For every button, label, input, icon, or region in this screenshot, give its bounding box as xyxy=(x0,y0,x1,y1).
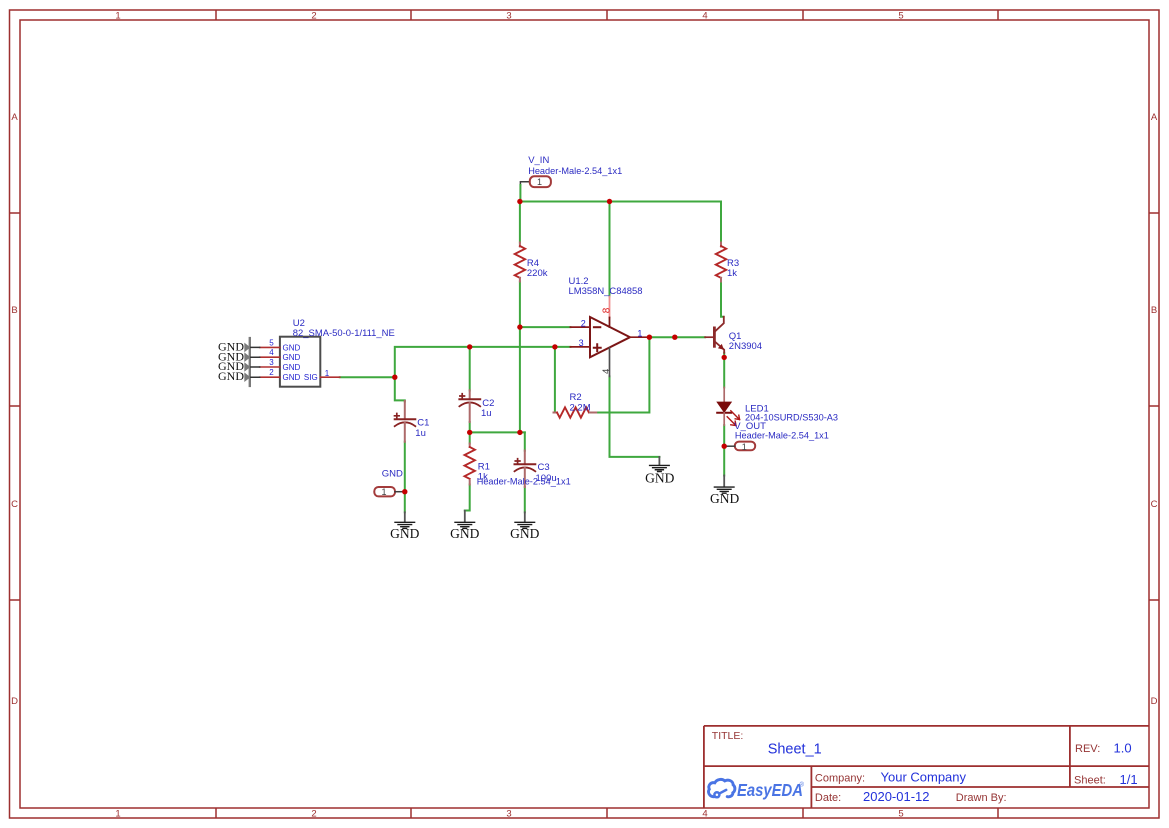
header flag GND near C1 xyxy=(374,487,405,496)
ground symbol below R1 xyxy=(455,511,475,529)
capacitor C1 xyxy=(395,401,416,442)
svg-text:2: 2 xyxy=(581,318,586,328)
svg-text:220k: 220k xyxy=(527,268,548,279)
capacitor C3 xyxy=(515,451,536,488)
svg-text:1: 1 xyxy=(325,369,330,378)
capacitor C2 xyxy=(459,390,480,422)
svg-text:4: 4 xyxy=(702,809,707,820)
svg-text:GND: GND xyxy=(450,526,479,541)
wire R1 top lead xyxy=(469,432,471,443)
svg-text:GND: GND xyxy=(510,526,539,541)
svg-text:2020-01-12: 2020-01-12 xyxy=(863,789,930,804)
wire C2 top from pin3 rail xyxy=(469,347,471,391)
wire C3 bottom to GND xyxy=(524,487,526,512)
svg-text:4: 4 xyxy=(601,369,612,374)
svg-text:1u: 1u xyxy=(481,408,492,419)
svg-text:1k: 1k xyxy=(727,268,737,279)
wire pin2 stub horizontal xyxy=(520,326,571,328)
svg-text:SIG: SIG xyxy=(304,373,318,382)
border row letters left xyxy=(11,112,18,707)
svg-text:A: A xyxy=(1151,112,1158,123)
svg-text:REV:: REV: xyxy=(1075,743,1100,755)
junction dots xyxy=(392,199,727,495)
svg-text:5: 5 xyxy=(898,809,903,820)
svg-text:3: 3 xyxy=(579,338,584,348)
GND flag texts at U2 xyxy=(218,340,244,383)
EasyEDA logo xyxy=(709,779,805,800)
svg-text:82_SMA-50-0-1/111_NE: 82_SMA-50-0-1/111_NE xyxy=(293,328,395,339)
wire R2 left lead up to pin3 rail xyxy=(554,347,556,413)
svg-text:8: 8 xyxy=(602,307,613,313)
wire opamp output to Q1 base xyxy=(649,336,705,338)
wire SIG node up and right to pin3 xyxy=(395,347,571,377)
wire C3 top from mid row xyxy=(524,432,526,450)
LED LED1 xyxy=(717,387,739,425)
svg-text:GND: GND xyxy=(710,491,739,506)
svg-text:GND: GND xyxy=(283,373,301,382)
svg-text:2: 2 xyxy=(269,368,274,377)
wire opamp pin4 down and right to GND xyxy=(610,376,660,457)
op-amp U1.2 xyxy=(570,296,649,376)
svg-text:B: B xyxy=(11,305,17,316)
svg-text:GND: GND xyxy=(390,526,419,541)
svg-text:GND: GND xyxy=(645,471,674,486)
svg-text:1: 1 xyxy=(637,328,642,338)
svg-text:Header-Male-2.54_1x1: Header-Male-2.54_1x1 xyxy=(477,476,571,487)
svg-text:TITLE:: TITLE: xyxy=(712,730,744,742)
CIRCUIT xyxy=(244,176,755,528)
wire Q1 emitter to LED xyxy=(723,353,725,388)
wire node to C1 top xyxy=(395,377,405,401)
svg-text:1: 1 xyxy=(742,442,747,452)
resistor R3 xyxy=(716,243,726,282)
svg-text:Company:: Company: xyxy=(815,772,865,784)
wire opamp pin8 from rail xyxy=(609,202,611,297)
resistor R4 xyxy=(515,243,525,282)
svg-text:Your Company: Your Company xyxy=(881,769,967,784)
title block texts xyxy=(712,730,1138,804)
wire R3 bottom to Q1 collector elbow xyxy=(721,282,724,317)
svg-text:B: B xyxy=(1151,305,1157,316)
svg-text:4: 4 xyxy=(269,348,274,357)
wire LED cathode to V_OUT node to GND xyxy=(723,425,725,475)
ground symbol below V_OUT xyxy=(714,476,734,494)
resistor R1 xyxy=(465,444,475,485)
header flag V_OUT xyxy=(724,442,755,451)
svg-text:Header-Male-2.54_1x1: Header-Male-2.54_1x1 xyxy=(528,166,622,177)
svg-text:LM358N_C84858: LM358N_C84858 xyxy=(569,286,643,297)
svg-text:Sheet_1: Sheet_1 xyxy=(768,742,822,758)
resistor R2 xyxy=(554,407,597,417)
svg-text:D: D xyxy=(1151,696,1158,707)
transistor Q1 xyxy=(705,317,724,353)
svg-text:2.2M: 2.2M xyxy=(570,403,591,414)
connector U2 xyxy=(260,337,340,387)
svg-text:3: 3 xyxy=(269,358,274,367)
wire mid row horizontal xyxy=(470,431,525,433)
svg-text:C: C xyxy=(1151,499,1158,510)
svg-text:GND: GND xyxy=(283,343,301,352)
svg-text:A: A xyxy=(11,112,18,123)
header flag V_IN xyxy=(530,176,551,187)
svg-text:1: 1 xyxy=(115,11,120,22)
svg-text:1: 1 xyxy=(382,487,387,497)
svg-text:4: 4 xyxy=(702,11,707,22)
wire U2 SIG to node xyxy=(340,376,395,378)
border column numbers top xyxy=(115,11,903,22)
wire R3 top from rail corner xyxy=(720,202,722,243)
svg-text:GND: GND xyxy=(218,369,244,383)
svg-text:3: 3 xyxy=(506,809,511,820)
ground symbol below C1 xyxy=(395,512,415,528)
wire R4 bottom to pin2 node down to mid row xyxy=(519,282,521,433)
svg-text:Date:: Date: xyxy=(815,792,841,804)
U2 pin numbers xyxy=(269,338,330,377)
wire R4 top lead from rail xyxy=(519,202,521,243)
wire C1 bottom to GND xyxy=(404,442,406,513)
svg-text:GND: GND xyxy=(382,469,403,480)
wire V_IN header to top rail xyxy=(520,182,529,202)
svg-text:R2: R2 xyxy=(570,392,582,403)
svg-text:C: C xyxy=(11,499,18,510)
svg-text:D: D xyxy=(11,696,18,707)
svg-text:1: 1 xyxy=(537,177,542,187)
svg-text:1/1: 1/1 xyxy=(1120,772,1138,787)
svg-text:GND: GND xyxy=(283,353,301,362)
wire output node down to R2 right xyxy=(596,337,649,412)
svg-text:5: 5 xyxy=(898,11,903,22)
svg-text:®: ® xyxy=(800,782,805,789)
ground symbol opamp pin4 xyxy=(650,457,670,472)
svg-text:1u: 1u xyxy=(415,428,426,439)
svg-text:Sheet:: Sheet: xyxy=(1074,775,1106,787)
border column numbers bottom xyxy=(115,809,903,820)
wire top supply rail xyxy=(520,201,721,203)
title block frame xyxy=(704,726,1149,808)
svg-text:GND: GND xyxy=(283,363,301,372)
svg-text:1: 1 xyxy=(115,809,120,820)
svg-text:Drawn By:: Drawn By: xyxy=(956,792,1007,804)
GND net flags at U2 pins xyxy=(244,338,259,386)
wire C2 bottom to mid node xyxy=(469,422,471,432)
wire R1 bottom to GND elbow xyxy=(465,485,470,511)
svg-text:EasyEDA: EasyEDA xyxy=(737,780,803,800)
svg-text:5: 5 xyxy=(269,338,274,347)
svg-text:2: 2 xyxy=(311,11,316,22)
ground symbol below C3 xyxy=(515,512,535,528)
svg-text:C3: C3 xyxy=(538,462,550,473)
svg-text:1.0: 1.0 xyxy=(1114,741,1132,756)
svg-text:3: 3 xyxy=(506,11,511,22)
U2 pin names GND x4 and SIG xyxy=(283,343,318,382)
svg-text:Header-Male-2.54_1x1: Header-Male-2.54_1x1 xyxy=(735,430,829,441)
svg-text:V_IN: V_IN xyxy=(528,155,549,166)
border row letters right xyxy=(1151,112,1158,707)
svg-text:2N3904: 2N3904 xyxy=(729,341,762,352)
svg-text:2: 2 xyxy=(311,809,316,820)
